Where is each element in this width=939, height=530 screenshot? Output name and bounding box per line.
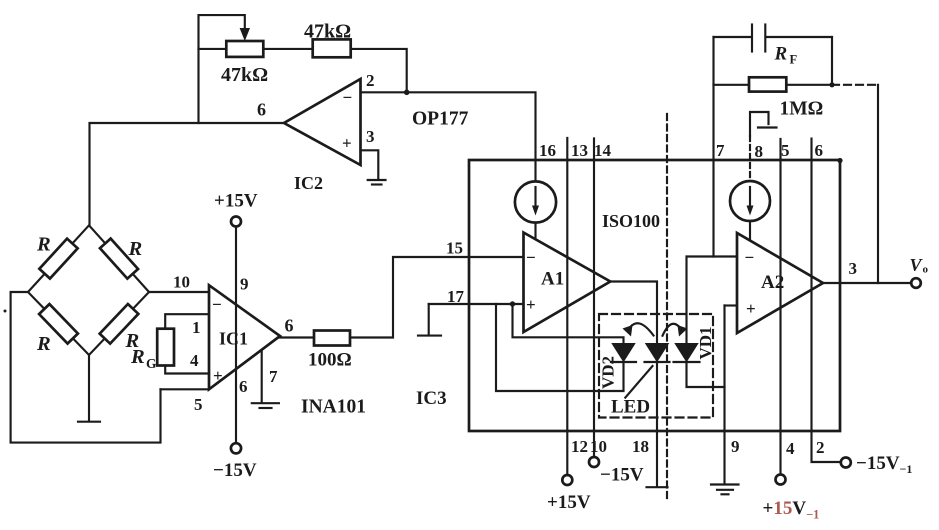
svg-text:100Ω: 100Ω: [308, 350, 352, 371]
svg-text:+15V: +15V: [547, 492, 591, 513]
resistor 100ohm: [314, 331, 350, 346]
resistor R (bridge bottom-right): [100, 304, 139, 344]
svg-text:R: R: [130, 346, 145, 368]
photodiode VD2: [611, 344, 636, 362]
diode LED: [645, 344, 670, 362]
svg-text:R: R: [774, 44, 788, 65]
ground (ISO100 pin17): [428, 304, 430, 334]
-15V terminal (pin10): [589, 457, 599, 467]
resistor R (bridge top-left): [39, 239, 77, 279]
svg-text:10: 10: [590, 437, 607, 456]
wire VD1 cathode to pin9 column: [687, 362, 725, 387]
wire pot row: [199, 49, 407, 92]
svg-text:12: 12: [571, 437, 588, 456]
svg-text:17: 17: [447, 287, 465, 306]
junction: [404, 90, 410, 96]
photodiode VD1: [674, 344, 700, 362]
svg-text:+: +: [746, 299, 756, 318]
svg-text:9: 9: [240, 275, 249, 294]
svg-text:9: 9: [731, 437, 740, 456]
ISO100 box: [469, 160, 840, 431]
svg-text:8: 8: [755, 142, 764, 161]
wire A1 + node down to VD2 anode row: [513, 304, 624, 344]
svg-text:A1: A1: [541, 269, 564, 290]
wire IC1 pin7 to ground: [261, 351, 263, 403]
gain resistor RG: [157, 329, 174, 366]
wire IC2 pin3 to ground: [361, 150, 379, 178]
current source CS2: [730, 181, 770, 221]
wire pin17 row to A1 +: [429, 303, 524, 305]
svg-text:47kΩ: 47kΩ: [304, 21, 351, 43]
svg-text:5: 5: [194, 395, 203, 414]
svg-text:+15V: +15V: [214, 191, 258, 212]
svg-text:−: −: [212, 295, 222, 314]
svg-text:−: −: [526, 248, 536, 267]
wire pin5 column to +15V-1: [779, 139, 781, 474]
wire IC2 output to bridge top node: [90, 123, 285, 226]
LED dashed box: [599, 314, 713, 418]
svg-text:3: 3: [366, 127, 375, 146]
+15V terminal (pin12): [562, 475, 572, 485]
svg-text:ISO100: ISO100: [602, 211, 660, 231]
+15V-1 terminal (pin4): [776, 475, 786, 485]
svg-text:14: 14: [594, 141, 612, 160]
svg-text:VD1: VD1: [696, 326, 715, 359]
wire LED cathode to pin18 bar: [656, 362, 658, 486]
svg-text:INA101: INA101: [301, 397, 366, 418]
svg-text:R: R: [36, 333, 51, 355]
light arc LED to VD1: [663, 324, 688, 337]
svg-text:6: 6: [239, 377, 248, 396]
wire bridge left node around to IC1 pin5: [11, 292, 161, 443]
svg-text:−15V: −15V: [600, 465, 644, 486]
-15V terminal: [231, 443, 241, 453]
wire bridge right node to IC1 pin10: [149, 291, 209, 293]
svg-text:−: −: [343, 88, 353, 107]
svg-text:VD2: VD2: [599, 356, 618, 389]
svg-text:V: V: [910, 255, 924, 275]
svg-text:6: 6: [285, 316, 294, 336]
potentiometer 47kohm body: [226, 41, 263, 57]
wire CS1 to A1: [534, 223, 536, 239]
svg-text:−15V: −15V: [213, 460, 257, 481]
wire A1 output to LED anode: [610, 282, 657, 345]
ground (IC2 pin3): [368, 179, 386, 181]
svg-text:o: o: [923, 264, 929, 276]
wire IC1 output: [279, 336, 314, 338]
svg-text:16: 16: [539, 141, 556, 160]
svg-text:18: 18: [632, 437, 649, 456]
svg-text:IC2: IC2: [294, 173, 323, 193]
svg-text:7: 7: [269, 367, 278, 386]
wire pin8 dashed to CS2: [749, 136, 751, 181]
capacitor (feedback): [714, 25, 833, 52]
isolation barrier dashed: [666, 114, 668, 500]
stray mark: [4, 310, 7, 313]
svg-text:OP177: OP177: [412, 109, 469, 130]
svg-text:+: +: [526, 295, 536, 314]
wire VD1 anode to A2 - row: [687, 257, 738, 345]
wire pin9 column: A2 + down to ground: [723, 306, 725, 484]
ground (IC1 pin7): [252, 402, 279, 404]
svg-text:LED: LED: [611, 397, 650, 418]
svg-text:3: 3: [849, 259, 858, 278]
svg-text:13: 13: [571, 141, 588, 160]
svg-text:2: 2: [816, 438, 825, 457]
wire pin6 column to -15V-1: [812, 139, 841, 462]
svg-text:+: +: [213, 366, 223, 385]
resistor RF 1Mohm: [749, 77, 786, 91]
bridge diamond wires: [28, 225, 149, 355]
wire dashed to feedback column: [832, 84, 878, 86]
op-amp A2: [737, 233, 823, 333]
light arc LED to VD2: [623, 323, 654, 336]
svg-text:15: 15: [446, 239, 463, 258]
svg-text:−: −: [745, 248, 755, 267]
+15V terminal: [231, 217, 241, 227]
current source CS1: [515, 181, 556, 222]
op-amp IC2 (OP177): [284, 79, 361, 193]
potentiometer 47k wiper loop wire: [199, 15, 251, 123]
svg-text:R: R: [36, 234, 51, 256]
wire op-amp pin2 row to ISO100 pin16: [361, 92, 536, 181]
svg-text:F: F: [790, 53, 798, 67]
svg-text:5: 5: [781, 141, 790, 160]
svg-text:2: 2: [366, 71, 375, 90]
svg-text:47kΩ: 47kΩ: [221, 64, 268, 86]
svg-text:4: 4: [190, 351, 199, 370]
svg-text:6: 6: [257, 100, 266, 120]
svg-text:IC1: IC1: [219, 329, 248, 349]
wire 100ohm to ISO100 pin15: [350, 257, 524, 338]
svg-text:+: +: [342, 134, 352, 153]
-15V-1 terminal (pin2): [841, 458, 851, 468]
ground (pin9): [711, 483, 739, 485]
svg-text:1: 1: [192, 318, 201, 337]
wire IC1 pin9 +15V to pin6 -15V vertical: [235, 227, 237, 443]
ground (bridge): [78, 421, 100, 423]
resistor 47kohm (feedback): [313, 39, 351, 57]
resistor R (bridge bottom-left): [39, 304, 78, 343]
corner junction dot: [837, 158, 842, 163]
svg-text:R: R: [128, 238, 143, 260]
wire A2 output to Vo: [823, 282, 911, 284]
wire IC1 pin5 row: [161, 388, 210, 390]
wire VD2 cathode to A1 + input: [496, 304, 624, 391]
wire CS2 to A2: [749, 221, 751, 240]
op-amp IC1 (INA101): [209, 285, 280, 389]
wire pin14 column to -15V: [593, 139, 595, 458]
svg-text:7: 7: [716, 141, 725, 160]
wire cap right down to resistor row: [831, 37, 833, 85]
svg-text:IC3: IC3: [416, 388, 447, 409]
resistor R (bridge top-right): [100, 239, 138, 279]
wire pin13 column to +15V: [566, 138, 568, 475]
op-amp A1: [524, 233, 611, 333]
output terminal Vo: [911, 278, 921, 288]
svg-text:10: 10: [173, 273, 190, 292]
gain resistor RG stubs: [165, 314, 209, 373]
svg-text:G: G: [146, 356, 157, 371]
svg-text:6: 6: [815, 141, 824, 160]
wire pin7 column feedback node to A2 -: [712, 37, 714, 257]
svg-text:1MΩ: 1MΩ: [780, 99, 824, 120]
label LED with pointer: [625, 366, 652, 398]
feedback column to output: [877, 85, 879, 283]
svg-text:4: 4: [786, 439, 795, 458]
wire bridge bottom node to ground: [88, 355, 90, 420]
trim symbol at pin8: [750, 112, 769, 136]
